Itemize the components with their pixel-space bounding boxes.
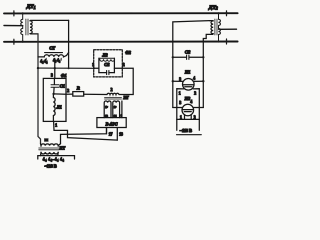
svg-text:4: 4 [193, 77, 195, 81]
PT core [39, 147, 59, 149]
svg-text:ДТ2: ДТ2 [208, 5, 218, 11]
insulated joint left bottom [13, 39, 15, 44]
inductor L2 bumps [100, 59, 115, 61]
svg-text:−110 В: −110 В [180, 128, 192, 133]
svg-text:ДТ1: ДТ1 [26, 4, 36, 10]
main horizontal wire y68.3 [38, 67, 94, 69]
transformer VT primary [107, 93, 119, 94]
svg-text:П1: П1 [184, 69, 191, 74]
P1 bottom stubs [177, 89, 184, 120]
node dot left [37, 67, 39, 69]
wire DT1 sec bottom step [30, 33, 38, 35]
filter F2 dashed box [94, 50, 123, 77]
svg-text:~110 В: ~110 В [45, 163, 57, 168]
wire DT2 sec top to vertical A [173, 21, 210, 108]
inductor L1 [53, 94, 55, 122]
svg-text:2: 2 [123, 63, 125, 67]
svg-text:Л2: Л2 [101, 53, 108, 58]
svg-text:СТ: СТ [49, 45, 55, 50]
C1 bottom lead [53, 88, 55, 94]
LC loop right side [113, 58, 115, 72]
svg-text:1: 1 [180, 116, 182, 120]
node dot at vertical x68.6 [68, 67, 70, 69]
svg-text:С2: С2 [104, 62, 110, 67]
svg-text:1: 1 [92, 63, 94, 67]
ST winding tap stubs [45, 58, 47, 60]
pin 18 [116, 128, 118, 141]
LC loop left side [94, 58, 99, 68]
junction dot [52, 93, 54, 95]
P2 bottom pins to bus [184, 115, 186, 119]
capacitor C1 plates [51, 84, 59, 86]
svg-text:1ʶ: 1ʶ [114, 106, 116, 109]
svg-text:2: 2 [194, 116, 196, 120]
DT2 secondary [211, 21, 213, 34]
node dots C2 ends [172, 56, 174, 58]
long vertical x38 [38, 34, 41, 144]
svg-text:Ф1: Ф1 [61, 73, 67, 78]
wire R to VT primary [84, 93, 107, 95]
ST primary bar [45, 52, 63, 54]
capacitor C2 plates [186, 55, 188, 59]
pin 17 [106, 128, 108, 134]
svg-text:4: 4 [190, 100, 192, 104]
VT secondary lead 4 [121, 101, 123, 118]
LC loop top branch bar [99, 57, 115, 59]
svg-text:2: 2 [194, 92, 196, 96]
VT secondary winding group 2 [113, 101, 120, 118]
wire F1 pin2 to R [66, 93, 73, 95]
svg-text:2: 2 [111, 88, 113, 92]
filter F1 box [43, 78, 66, 121]
ST secondary bumps [38, 53, 69, 57]
relay P1 [183, 79, 195, 91]
wire PT sec to V-ARS pin17 [61, 128, 107, 144]
svg-text:С1: С1 [60, 84, 65, 89]
transformer PT secondary [41, 144, 58, 146]
track top rail [4, 12, 238, 14]
VT secondary winding group 1 [104, 101, 111, 118]
drops below bus [176, 119, 178, 130]
ST centre tap vertical [54, 59, 56, 79]
insulated joint left top [13, 11, 15, 16]
DT1 core [25, 19, 27, 35]
svg-text:1ʶ: 1ʶ [105, 106, 107, 109]
DT2 core [214, 19, 216, 35]
wire DT2 sec bottom to vertical D [203, 34, 211, 107]
svg-text:2: 2 [67, 89, 69, 93]
svg-text:В-АРС: В-АРС [105, 122, 118, 127]
pin 1 lead [53, 121, 55, 130]
wire A to P1 left [173, 80, 183, 82]
capacitor C1 lead [53, 78, 55, 84]
transformer DT2 main winding [219, 13, 221, 41]
wire F2 pin2 to VT [119, 68, 133, 94]
svg-text:18: 18 [119, 133, 123, 137]
node dots P1 wire [172, 80, 174, 82]
svg-text:3: 3 [179, 101, 181, 105]
svg-text:R: R [77, 85, 80, 90]
wire DT1 sec top to vertical [30, 19, 69, 21]
wire vertical x68.6 down [68, 20, 70, 68]
svg-text:ПТ: ПТ [58, 145, 65, 150]
wire to pin 2 [54, 93, 66, 95]
svg-text:ВТ: ВТ [122, 95, 129, 100]
capacitor C2 bottom branch [99, 72, 115, 74]
svg-text:1: 1 [55, 123, 57, 127]
bottom bar [177, 134, 202, 136]
wire P1 right to D [194, 80, 203, 82]
track mid-right line [220, 28, 237, 30]
box V-ARS [97, 118, 126, 128]
capacitor C2 shunt wire [173, 56, 187, 58]
svg-text:17: 17 [109, 132, 113, 136]
svg-text:3: 3 [51, 73, 53, 77]
svg-text:С2: С2 [185, 49, 191, 54]
track mid-left line [4, 25, 23, 27]
PT primary [41, 152, 58, 154]
node dot ST tap [54, 67, 56, 69]
svg-text:1: 1 [179, 92, 181, 96]
svg-text:Ф2: Ф2 [125, 50, 131, 55]
transformer DT1 main winding [21, 13, 23, 41]
insulated joint right top [226, 11, 228, 16]
insulated joint right bottom [226, 39, 228, 44]
PT tap box [38, 156, 75, 159]
VT core [105, 96, 122, 98]
resistor R [73, 92, 84, 97]
wire F1 pin1 to V-ARS pin18 [54, 130, 117, 140]
svg-text:Л1: Л1 [56, 104, 62, 109]
node dot at F2 entry [93, 67, 95, 69]
track bottom rail [4, 41, 238, 43]
DT1 secondary [30, 21, 32, 34]
